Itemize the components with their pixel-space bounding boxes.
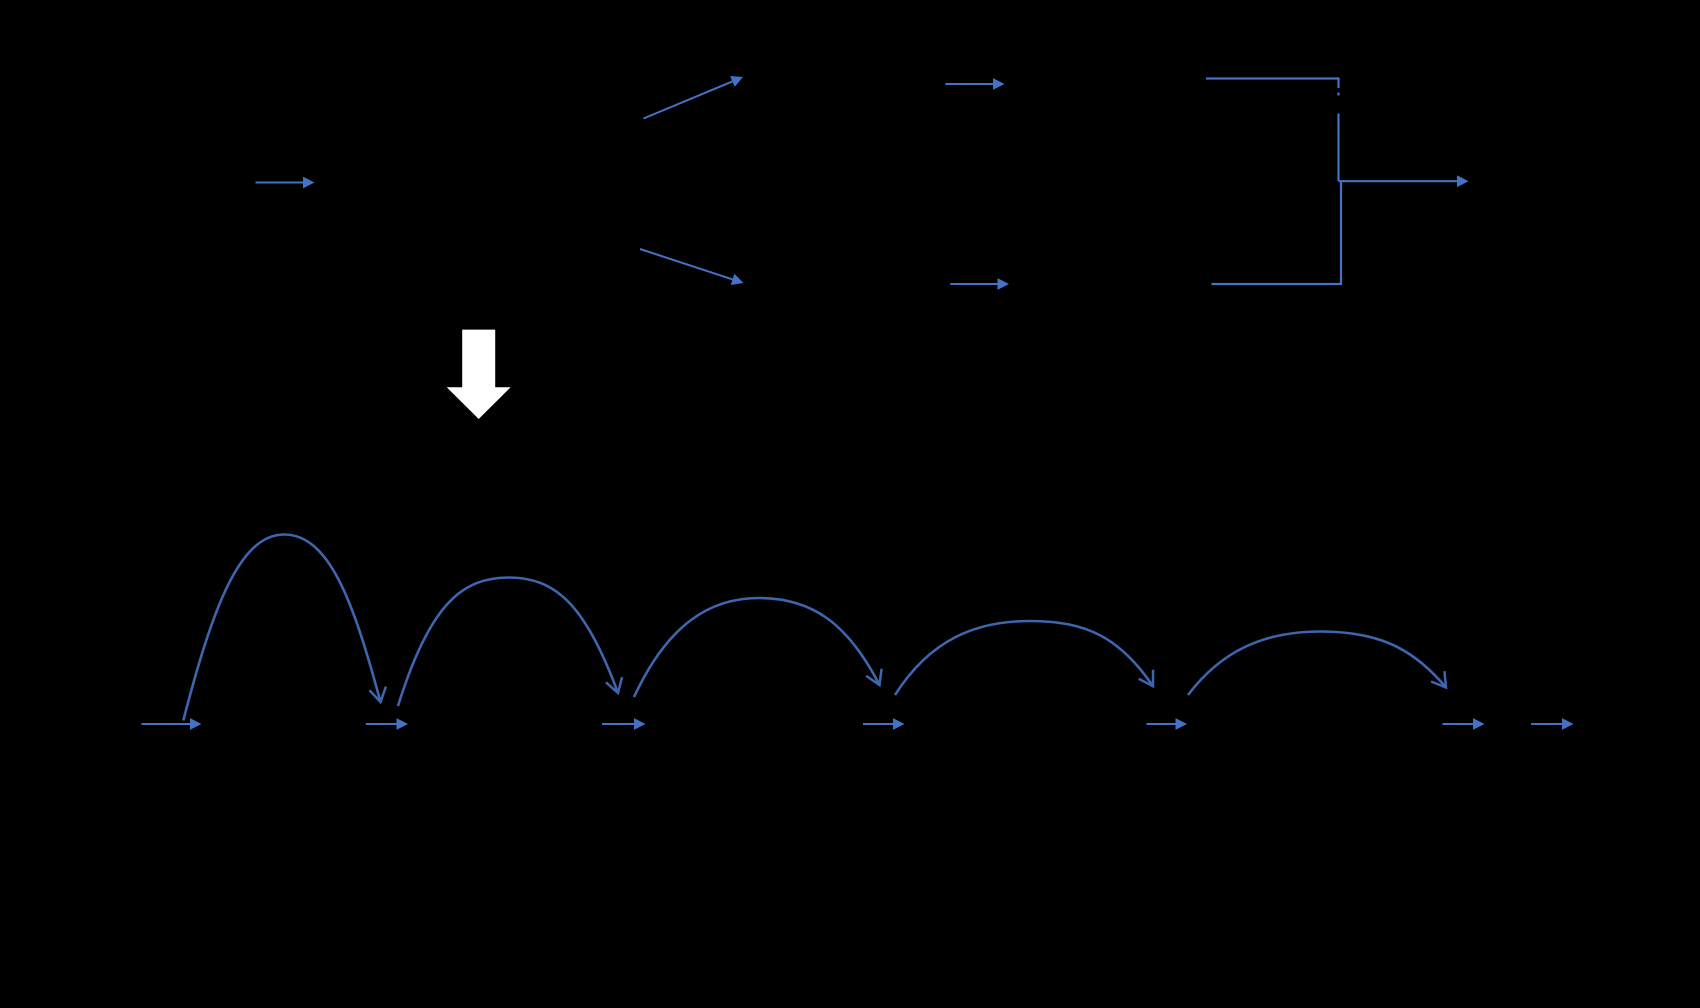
straight arrow D (upper middle) [945,83,993,85]
curved hop arc 1 [183,535,380,721]
small baseline arrow S2 [366,723,397,725]
small baseline arrow S1 [142,723,191,725]
small baseline arrow S7 [1531,723,1562,725]
small baseline arrow S6 [1443,723,1474,725]
curved hop arc 3 [634,598,880,697]
diagonal arrow C (down-right) [640,249,733,279]
white block arrow (down) [447,330,511,419]
small baseline arrow S4 [863,723,893,725]
small baseline arrow S5 [1147,723,1176,725]
curved hop arc 5 [1188,632,1446,696]
small baseline arrow S3 [602,723,634,725]
straight arrow E (lower middle) [950,283,997,285]
diagonal arrow B (up-right) [644,81,733,118]
bracket top elbow connector [1206,79,1339,182]
bracket bottom elbow connector [1212,181,1342,284]
straight arrow A (top left) [256,182,304,184]
curved hop arc 4 [895,621,1153,695]
curved hop arc 2 [398,578,618,707]
bracket output arrow [1339,180,1458,182]
